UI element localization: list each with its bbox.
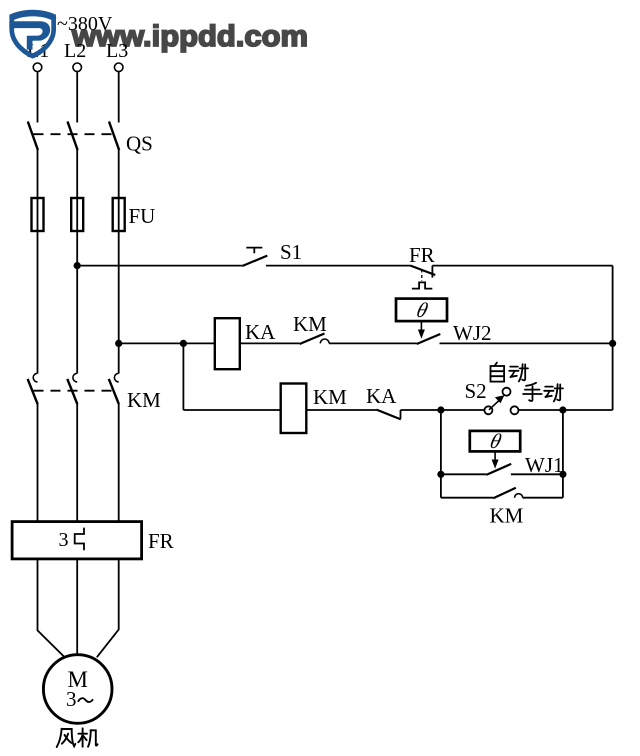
svg-text:QS: QS <box>126 132 153 156</box>
svg-text:KM: KM <box>293 312 327 336</box>
node L3-row2 junction <box>115 340 122 347</box>
terminal L3 <box>114 63 123 72</box>
svg-text:~380V: ~380V <box>57 13 113 35</box>
svg-text:KM: KM <box>313 385 347 409</box>
thermal relay FR box <box>12 522 142 559</box>
FR heater symbol <box>75 528 84 551</box>
wire L3 upper <box>118 72 120 123</box>
contact WJ2 blade <box>417 334 441 344</box>
WJ2 arrow <box>420 321 422 331</box>
wire row5 left <box>441 497 493 499</box>
node row3 right junction <box>559 406 566 413</box>
svg-text:S1: S1 <box>280 240 302 264</box>
wire row4 left <box>441 473 486 475</box>
svg-text:L3: L3 <box>106 40 128 62</box>
contactor KM pole 3 blade <box>109 379 119 404</box>
wire L3 KM to FR box <box>118 404 120 524</box>
FR reset symbol <box>412 282 432 288</box>
contact KA NC stub <box>400 410 402 419</box>
node branch junction <box>180 340 187 347</box>
contact KM NO arc row2 <box>320 339 329 343</box>
wire row2 a <box>240 342 300 344</box>
timer box WJ1 theta <box>470 431 520 452</box>
wire row1 middle <box>266 265 411 267</box>
svg-text:3: 3 <box>59 529 69 551</box>
svg-text:3: 3 <box>66 687 77 711</box>
label auto (zidong) <box>491 363 529 382</box>
node right rail row2 <box>609 340 616 347</box>
wire row2 left <box>119 342 215 344</box>
wire right rail lower <box>612 343 614 410</box>
wire left drop row3-row4 <box>440 410 442 498</box>
svg-text:L2: L2 <box>64 40 86 62</box>
QS linkage dashed <box>34 133 116 135</box>
terminal L2 <box>73 63 82 72</box>
wire right rail upper <box>612 266 614 344</box>
label manual (shoudong) <box>523 383 563 402</box>
node L2-row1 junction <box>74 262 81 269</box>
wire L1 FR to motor <box>38 559 64 657</box>
selector S2 upper pole <box>503 388 511 396</box>
wire L1 QS to fuse <box>37 149 39 198</box>
svg-text:WJ2: WJ2 <box>453 321 492 345</box>
button S1 actuator <box>246 248 262 254</box>
svg-text:FR: FR <box>148 529 174 553</box>
contact FR stub <box>431 266 433 278</box>
contactor KM pole 2 arc <box>73 373 77 382</box>
selector S2 right pole <box>511 406 519 414</box>
fuse FU pole 1 <box>32 198 44 231</box>
wire L2 upper <box>76 72 78 123</box>
fuse FU pole 3 <box>113 198 125 231</box>
FR dashed link <box>421 270 423 282</box>
contact KM NO arc bottom <box>515 494 523 498</box>
svg-text:KA: KA <box>245 320 276 344</box>
wire L3 FR to motor <box>97 559 119 657</box>
contact KM NO blade bottom <box>493 488 516 499</box>
wire row3 b <box>306 409 376 411</box>
contact KA NC blade <box>376 410 400 420</box>
svg-text:WJ1: WJ1 <box>525 453 564 477</box>
svg-text:KM: KM <box>127 388 161 412</box>
switch QS pole 1 <box>28 122 38 151</box>
contactor KM pole 1 blade <box>28 379 38 404</box>
wire row1 left <box>77 265 242 267</box>
wire L2 KM to FR box <box>76 404 78 524</box>
KM linkage dashed <box>34 390 116 392</box>
motor M circle <box>43 655 112 724</box>
node row4 right <box>559 471 566 478</box>
contact WJ1 blade <box>486 464 511 475</box>
wire row4 right <box>511 473 563 475</box>
coil KM <box>281 384 307 434</box>
svg-text:FR: FR <box>409 243 435 267</box>
wire row3 d <box>519 409 613 411</box>
wire row1 right <box>432 265 612 267</box>
switch QS pole 2 <box>68 122 78 151</box>
label fan (feng ji) <box>57 728 98 747</box>
logo shield <box>9 10 56 59</box>
node row3 left junction <box>437 406 444 413</box>
wire row3 a <box>183 409 280 411</box>
selector S2 lever arrow <box>489 398 501 409</box>
button S1 blade <box>242 256 267 266</box>
switch QS pole 3 <box>109 122 119 151</box>
WJ1 arrow <box>494 451 496 460</box>
svg-text:KM: KM <box>490 504 524 528</box>
logo P <box>9 21 50 49</box>
svg-text:S2: S2 <box>465 379 487 403</box>
contactor KM pole 1 arc <box>33 373 37 382</box>
wire L1 through fuse down <box>37 198 39 374</box>
wire row2 c <box>440 342 613 344</box>
wire row2 b <box>329 342 417 344</box>
terminal L1 <box>33 63 42 72</box>
wire L3 through fuse down <box>118 198 120 374</box>
selector S2 left pole <box>484 406 492 414</box>
contact KM NO blade row2 <box>300 334 325 345</box>
coil KA <box>215 318 240 369</box>
node row4 left <box>437 471 444 478</box>
wire L1 KM to FR box <box>37 404 39 524</box>
wire L1 upper <box>37 72 39 123</box>
wire row3 c <box>401 409 485 411</box>
contactor KM pole 2 blade <box>67 379 77 404</box>
fuse FU pole 2 <box>71 198 83 231</box>
contactor KM pole 3 arc <box>114 373 118 382</box>
svg-text:FU: FU <box>129 204 156 228</box>
contact FR NC blade <box>411 266 436 275</box>
wire row5 right <box>523 497 563 499</box>
wire L2 through fuse down <box>76 198 78 374</box>
svg-text:KA: KA <box>366 384 397 408</box>
wire branch vertical <box>182 343 184 410</box>
wire right drop row3-row4 <box>562 410 564 498</box>
wire L2 QS to fuse <box>76 149 78 198</box>
wire L2 FR to motor <box>76 559 78 656</box>
timer box WJ2 theta <box>396 299 447 322</box>
wire L3 QS to fuse <box>118 149 120 198</box>
